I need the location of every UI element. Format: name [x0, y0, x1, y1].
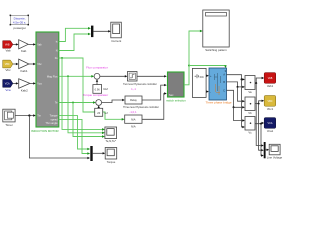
- Timer block: [3, 109, 15, 127]
- svg-text:Flux comparator: Flux comparator: [86, 66, 108, 70]
- svg-text:Vca: Vca: [5, 88, 11, 92]
- voltage measurement Vb: [245, 97, 255, 115]
- svg-text:Vca1: Vca1: [267, 129, 274, 133]
- svg-text:N/A: N/A: [131, 118, 136, 122]
- mux for current scope: [91, 26, 93, 37]
- voltage measurement Va: [245, 76, 255, 94]
- From tag Vbc (yellow): [3, 60, 13, 72]
- svg-text:VBC: VBC: [5, 63, 10, 66]
- gain Kab: [19, 40, 29, 54]
- constant 20 torque reference: [95, 108, 108, 116]
- mux for torque scope: [90, 146, 92, 161]
- svg-text:0.96: 0.96: [95, 88, 101, 92]
- svg-text:Two level Hysteresis controlle: Two level Hysteresis controller: [123, 83, 157, 86]
- wire branch to scope Te,N,Te* input 2: [68, 76, 103, 133]
- wire flux sum to two level hysteresis: [100, 75, 126, 77]
- svg-text:Vbc1: Vbc1: [267, 107, 274, 111]
- wire Vb to goto Vbc1: [255, 101, 263, 104]
- junction on phase A wire: [241, 78, 243, 80]
- wire torque sum to three level hysteresis: [102, 100, 124, 103]
- wire gain Kab to motor port Vab: [28, 43, 34, 45]
- switching pattern scope: [203, 10, 229, 52]
- svg-text:switch selection: switch selection: [166, 98, 186, 102]
- scope Current: [111, 22, 122, 43]
- svg-text:Te,N,Te*: Te,N,Te*: [106, 139, 117, 143]
- wire DC minus to bridge: [206, 91, 207, 93]
- svg-text:Kab: Kab: [21, 49, 27, 53]
- wire 0.96 to flux sum: [96, 81, 98, 85]
- wire motor N-output to current mux: [59, 34, 90, 51]
- switching table block: [166, 72, 186, 102]
- gain Kab1: [19, 59, 29, 73]
- svg-text:VBC: VBC: [268, 100, 273, 103]
- wire three level hysteresis to switching table port 2: [142, 85, 165, 100]
- wire phase B down to Vb measurement plus: [238, 87, 244, 101]
- From tag Vab (red): [3, 41, 13, 53]
- wire branch to scope Te,N,Te* input 1: [62, 58, 103, 129]
- svg-text:Vb: Vb: [248, 111, 252, 115]
- wire bridge C to Vb measurement minus: [227, 90, 244, 107]
- wire two level hysteresis to switching table port 1: [137, 75, 165, 77]
- svg-text:Sec: Sec: [169, 93, 174, 97]
- goto tag Vca1 (navy): [264, 118, 276, 134]
- wire switching table to switching pattern scope: [184, 31, 201, 85]
- wire Vab tag to gain Kab: [13, 43, 17, 45]
- two level hysteresis controller block: [123, 72, 157, 92]
- torque comparator sum: [96, 100, 102, 106]
- wire motor Te output to torque comparator: [59, 102, 95, 104]
- junction on torque wire: [72, 102, 74, 104]
- svg-text:1,-1: 1,-1: [131, 87, 136, 91]
- wire Vc to goto Vca1: [255, 122, 263, 125]
- wire bridge A to Va measurement: [227, 75, 244, 80]
- svg-text:Ref: Ref: [104, 87, 109, 91]
- flux comparator sum: [94, 73, 100, 79]
- junction on Vc output: [260, 123, 262, 125]
- svg-text:Vab1: Vab1: [267, 84, 274, 88]
- powergui block: [10, 15, 29, 30]
- junction on flux-angle wire: [61, 57, 63, 59]
- wire Va down to line voltage mux input 1: [256, 83, 262, 145]
- scope Te,N,Te*: [105, 127, 117, 143]
- wire sector block to switching table port 3: [142, 94, 165, 120]
- svg-text:Kab1: Kab1: [20, 69, 27, 73]
- svg-text:INDUCTION MOTOR: INDUCTION MOTOR: [31, 129, 59, 133]
- goto tag Vab1 (red): [264, 73, 276, 89]
- wire motor flux output to flux comparator: [59, 75, 93, 77]
- scope Torque: [105, 148, 117, 164]
- three phase bridge block: [205, 68, 231, 105]
- wire torque mux to Torque scope: [93, 152, 104, 154]
- svg-text:-1,0,1: -1,0,1: [129, 110, 137, 114]
- gain Kab2: [19, 79, 30, 93]
- wire Timer to motor port Tm: [15, 115, 34, 117]
- junction on Va output: [255, 82, 257, 84]
- svg-text:Current: Current: [111, 39, 121, 43]
- wire bridge B to Va measurement minus: [227, 82, 244, 87]
- wire switching table to bridge gate: [189, 65, 226, 68]
- wire line voltage mux to scope: [266, 149, 268, 151]
- wire timer junction down to torque mux: [29, 116, 88, 159]
- wire Vca tag to gain Kab2: [13, 82, 17, 84]
- induction motor block: [31, 32, 59, 133]
- wire Vbc tag to gain Kab1: [13, 63, 17, 65]
- wire 20 to torque sum: [98, 107, 100, 108]
- svg-text:powergui: powergui: [14, 26, 27, 30]
- svg-text:VAB: VAB: [5, 44, 10, 47]
- goto tag Vbc1 (yellow): [264, 96, 276, 112]
- mux for line voltage scope: [264, 142, 266, 158]
- wire gain Kab2 to motor port Vca: [30, 82, 34, 84]
- svg-text:N/A: N/A: [131, 125, 136, 129]
- svg-text:N: N: [56, 49, 58, 53]
- svg-text:Torque: Torque: [50, 114, 58, 118]
- svg-text:4.5e-05 s.: 4.5e-05 s.: [13, 20, 27, 24]
- wire gain Kab1 to motor port Vbc: [29, 63, 34, 65]
- wire phase A down to Vc measurement minus: [242, 79, 244, 127]
- junction on phase C wire: [233, 106, 235, 108]
- svg-text:Thm angle: Thm angle: [45, 121, 58, 125]
- svg-text:Vbc: Vbc: [5, 68, 11, 72]
- DC source block: [192, 68, 206, 97]
- wire branch to scope Te,N,Te* input 3: [73, 103, 103, 137]
- svg-text:Timer: Timer: [5, 123, 13, 127]
- svg-text:Vab: Vab: [5, 49, 10, 53]
- junction on gate wire: [188, 65, 190, 67]
- sector block N/A: [125, 115, 142, 129]
- svg-text:Va: Va: [248, 90, 252, 94]
- From tag Vca (navy): [3, 80, 13, 92]
- wire current mux to Current scope: [93, 30, 109, 32]
- svg-text:VCA: VCA: [5, 83, 10, 86]
- wire Vc down to line voltage mux input 3: [261, 124, 262, 156]
- wire DC plus to bridge: [206, 75, 207, 77]
- svg-text:VAB: VAB: [268, 77, 273, 80]
- wire motor flux-angle output to sector block N/A: [59, 58, 123, 119]
- svg-text:VCA: VCA: [268, 122, 273, 125]
- junction on timer wire: [28, 114, 30, 116]
- svg-text:Switching pattern: Switching pattern: [205, 48, 227, 52]
- svg-text:Three level Hysteresis control: Three level Hysteresis controller: [123, 106, 159, 109]
- wire Va to goto Vab1: [255, 78, 263, 83]
- wire motor torque output to torque mux input 1: [59, 116, 89, 149]
- junction on flux wire: [67, 75, 69, 77]
- three level hysteresis controller block: [123, 96, 159, 114]
- wire motor is-output to current mux: [59, 28, 90, 41]
- svg-text:Mag Flux: Mag Flux: [47, 74, 58, 78]
- scope Line Voltage: [267, 144, 283, 159]
- svg-text:speed: speed: [51, 117, 59, 121]
- svg-text:Torque comparator: Torque comparator: [83, 93, 108, 97]
- voltage measurement Vc: [245, 117, 255, 135]
- wire phase C down to Vc measurement plus: [234, 107, 244, 120]
- junction on Vb output: [258, 103, 260, 105]
- svg-text:Relay: Relay: [130, 98, 137, 102]
- svg-text:Vbc: Vbc: [37, 62, 42, 66]
- svg-text:Vab: Vab: [37, 42, 42, 46]
- svg-text:Vca: Vca: [37, 81, 42, 85]
- svg-text:Torque: Torque: [107, 160, 116, 164]
- junction on phase B wire: [237, 86, 239, 88]
- svg-text:Three phase bridge: Three phase bridge: [205, 101, 231, 105]
- wire Vb down to line voltage mux input 2: [259, 104, 263, 151]
- svg-text:Tm: Tm: [37, 114, 41, 118]
- wire motor speed output to torque mux input 2: [59, 119, 89, 153]
- svg-text:Kab2: Kab2: [21, 88, 28, 92]
- svg-text:ref: ref: [104, 111, 107, 115]
- svg-text:Line Voltage: Line Voltage: [267, 156, 283, 160]
- constant 0.96 flux reference: [93, 85, 108, 94]
